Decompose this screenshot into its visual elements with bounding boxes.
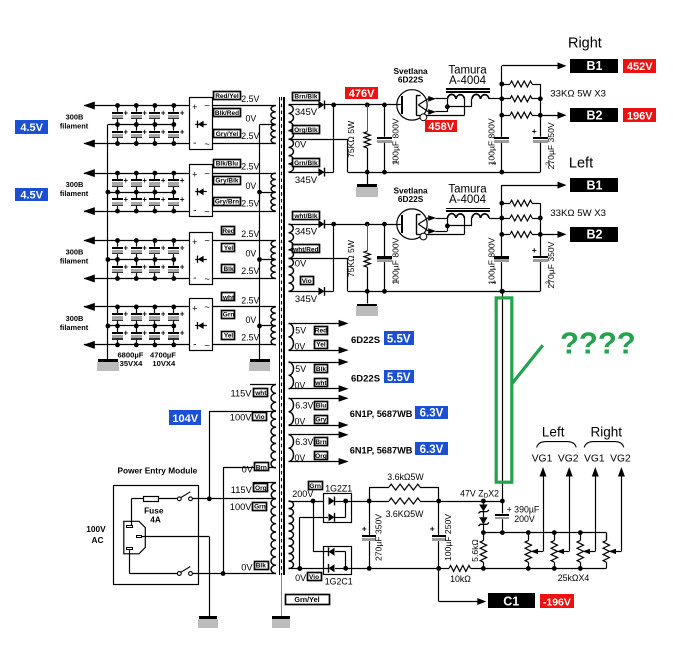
svg-text:Grn: Grn bbox=[223, 312, 235, 319]
transformer heater winding 2 bbox=[289, 362, 294, 389]
svg-text:Blk: Blk bbox=[256, 562, 267, 569]
ground filament capacitor bus bbox=[98, 359, 118, 362]
svg-text:~: ~ bbox=[204, 274, 210, 285]
wire heater 3 top bbox=[289, 398, 342, 400]
capacitor filament 2 bottom C4 bbox=[173, 192, 175, 198]
svg-text:+: + bbox=[180, 243, 185, 252]
wire wiper VG1 right bbox=[590, 551, 596, 553]
capacitor 100uF 800V left input bbox=[382, 222, 387, 227]
diode HV right bottom bbox=[318, 168, 324, 176]
label Blk/Red 0V bbox=[214, 109, 241, 117]
arrow filament 2 negative output bbox=[83, 207, 95, 215]
wire heater 4 bottom bbox=[289, 461, 342, 463]
svg-text:1: 1 bbox=[392, 279, 399, 283]
wire heater 1 bottom bbox=[289, 350, 342, 352]
capacitor filament 4 bottom C2 bbox=[136, 326, 138, 332]
capacitor filament 3 top C2 (6800uF) bbox=[136, 241, 138, 247]
wire B1 output right bbox=[502, 65, 559, 67]
svg-text:100µF 250V: 100µF 250V bbox=[443, 514, 453, 561]
capacitor filament 1 bottom C4 bbox=[173, 125, 175, 131]
wire wiper VG2 right bbox=[616, 551, 622, 553]
svg-text:-: - bbox=[193, 206, 196, 217]
svg-text:4.5V: 4.5V bbox=[20, 122, 43, 134]
wire B+ rail right bbox=[501, 66, 503, 137]
wire IEC earth pin to ground bbox=[141, 536, 209, 538]
svg-text:5.5V: 5.5V bbox=[387, 372, 411, 384]
svg-text:Yel: Yel bbox=[316, 342, 326, 349]
transformer heater winding 4 bbox=[289, 435, 294, 462]
svg-text:25kΩX4: 25kΩX4 bbox=[558, 573, 590, 583]
wire IEC line pin to fuse bbox=[131, 499, 133, 526]
svg-text:Gry/Blk: Gry/Blk bbox=[215, 178, 239, 185]
wire filament 3 AC bottom (bridge to winding) bbox=[212, 278, 275, 280]
brace Right outputs bbox=[584, 442, 624, 448]
resistor 33K C right bbox=[502, 115, 510, 117]
bridge rectifier filament 3 bbox=[190, 233, 213, 285]
wire filament 1 center tap 0V bbox=[260, 124, 276, 126]
resistor 3.6k B bbox=[389, 498, 420, 504]
potentiometer 25k VG2 right bbox=[606, 533, 608, 541]
svg-text:Gry: Gry bbox=[315, 417, 327, 424]
wire mystery link (left filter ground to bias node) bbox=[502, 291, 504, 501]
transformer heater winding 1 bbox=[289, 323, 294, 350]
svg-text:0V: 0V bbox=[295, 380, 306, 390]
capacitor filament 1 bottom C1 bbox=[117, 125, 119, 131]
svg-text:+ 390µF: + 390µF bbox=[507, 505, 540, 515]
svg-text:filament: filament bbox=[60, 323, 89, 332]
arrow filament 4 positive output bbox=[83, 303, 95, 311]
svg-text:+: + bbox=[180, 329, 185, 338]
arrow filament 1 negative output bbox=[83, 140, 95, 148]
svg-text:33KΩ 5W X3: 33KΩ 5W X3 bbox=[550, 208, 606, 219]
label heater 4 Brn bbox=[315, 438, 328, 446]
resistor 33K B right bbox=[502, 98, 510, 100]
svg-text:+: + bbox=[180, 127, 185, 136]
label 4.5V filament 2 bbox=[15, 188, 48, 201]
wire filament 4 AC top (bridge to winding) bbox=[212, 306, 275, 308]
label winding Brn/Blk bbox=[293, 93, 320, 101]
diode HV left top bbox=[318, 220, 324, 228]
wire 0V link primary1 to primary2 bbox=[223, 468, 225, 574]
arrow filament 1 positive output bbox=[83, 102, 95, 110]
svg-text:0V: 0V bbox=[295, 259, 307, 270]
arrow output VG1 left bbox=[540, 467, 547, 477]
resistor 75K 5W left bbox=[365, 222, 370, 227]
svg-text:Left: Left bbox=[569, 155, 593, 171]
svg-text:Blk/Blu: Blk/Blu bbox=[216, 161, 238, 168]
svg-text:2.5V: 2.5V bbox=[241, 332, 259, 342]
capacitor filament 1 top C2 (6800uF) bbox=[136, 106, 138, 112]
svg-text:Blu: Blu bbox=[316, 403, 327, 410]
svg-text:6800µF: 6800µF bbox=[117, 350, 143, 359]
resistor 33K A right bbox=[502, 84, 510, 86]
svg-text:452V: 452V bbox=[627, 61, 653, 73]
ground power entry earth bbox=[199, 616, 217, 619]
svg-text:+: + bbox=[124, 243, 129, 252]
bridge rectifier filament 2 bbox=[190, 165, 213, 217]
label B1 left bbox=[570, 178, 618, 192]
wire HV left ground rail bbox=[348, 291, 540, 293]
transformer primary winding 1 bbox=[271, 385, 276, 412]
rectifier 1G2Z1 bbox=[324, 494, 352, 523]
bridge rectifier filament 1 bbox=[190, 98, 213, 150]
capacitor 270uF 350V left bbox=[533, 256, 548, 258]
svg-text:0V: 0V bbox=[242, 464, 254, 474]
svg-text:3.6KΩ5W: 3.6KΩ5W bbox=[386, 509, 425, 519]
svg-text:+: + bbox=[192, 102, 197, 112]
label Yel 0V bbox=[222, 244, 235, 252]
ground HV left bbox=[367, 291, 369, 303]
svg-text:4700µF: 4700µF bbox=[150, 350, 176, 359]
wire B+ rail left bbox=[501, 185, 503, 256]
svg-text:Red: Red bbox=[222, 228, 234, 235]
svg-text:A-4004: A-4004 bbox=[449, 194, 487, 206]
label B2 left bbox=[570, 227, 618, 242]
svg-text:345V: 345V bbox=[295, 226, 318, 237]
svg-text:75KΩ 5W: 75KΩ 5W bbox=[346, 239, 356, 277]
capacitor filament 2 top C2 (6800uF) bbox=[136, 173, 138, 179]
svg-text:458V: 458V bbox=[428, 121, 454, 133]
wire filament 1 capacitor midpoint bus bbox=[108, 124, 174, 126]
transformer secondary winding filament 4 bbox=[271, 307, 276, 345]
svg-text:+: + bbox=[124, 329, 129, 338]
svg-text:6D22S: 6D22S bbox=[351, 335, 380, 346]
svg-text:-: - bbox=[193, 273, 196, 284]
svg-text:2: 2 bbox=[545, 281, 552, 285]
svg-text:6D22S: 6D22S bbox=[351, 373, 380, 384]
label C1 bbox=[488, 593, 535, 608]
transformer HV secondary winding right channel bbox=[289, 105, 294, 139]
svg-text:1: 1 bbox=[491, 281, 498, 285]
label 196V bbox=[623, 108, 656, 122]
wire tube left heater to choke bbox=[436, 218, 448, 220]
svg-text:6.3V: 6.3V bbox=[295, 401, 313, 411]
switch neutral bbox=[177, 572, 181, 576]
transformer primary winding 2 bbox=[271, 483, 276, 499]
svg-text:300B: 300B bbox=[66, 248, 84, 257]
label Org bbox=[254, 484, 268, 492]
wire filament 4 negative bus bbox=[84, 344, 189, 346]
svg-text:B1: B1 bbox=[587, 59, 603, 73]
annotation green pointer line bbox=[512, 345, 543, 384]
capacitor filament 2 top C4 (4700uF) bbox=[173, 173, 175, 179]
svg-text:+: + bbox=[142, 108, 147, 117]
potentiometer 25k VG2 left bbox=[554, 533, 556, 541]
svg-text:AC: AC bbox=[92, 535, 104, 545]
wire 100V link primary1 to line bbox=[209, 411, 211, 499]
svg-text:~: ~ bbox=[204, 236, 210, 247]
label heater 2 wht bbox=[315, 379, 328, 387]
svg-text:+: + bbox=[180, 310, 185, 319]
capacitor filament 4 bottom C3 bbox=[154, 326, 156, 332]
wire grid bias divider top rail bbox=[483, 532, 606, 534]
wire filament 1 negative bus bbox=[84, 143, 189, 145]
svg-text:+: + bbox=[192, 237, 197, 247]
label wht 2.5V bbox=[222, 293, 235, 301]
svg-text:+: + bbox=[161, 127, 166, 136]
svg-text:VG2: VG2 bbox=[558, 454, 579, 465]
wire HV left rectifier join bbox=[333, 224, 335, 291]
svg-text:filament: filament bbox=[60, 189, 89, 198]
damper diode tube 6D22S left (U2) bbox=[397, 209, 427, 239]
capacitor 270uF 350V bias bbox=[362, 535, 376, 537]
label Vio bbox=[253, 413, 267, 421]
fuse 4A bbox=[131, 498, 144, 500]
svg-text:0V: 0V bbox=[246, 315, 257, 325]
svg-text:Gry/Yel: Gry/Yel bbox=[216, 131, 239, 138]
svg-text:+: + bbox=[180, 108, 185, 117]
transformer secondary winding filament 3 bbox=[271, 241, 276, 279]
label Gry/Yel 2.5V bbox=[214, 130, 241, 138]
svg-text:wht: wht bbox=[254, 390, 267, 397]
wire filament 1 AC top (bridge to winding) bbox=[212, 105, 275, 107]
label B1 right bbox=[570, 59, 618, 73]
svg-text:Power Entry Module: Power Entry Module bbox=[118, 466, 198, 476]
transformer HV secondary winding left channel bbox=[289, 224, 294, 258]
svg-text:Yel: Yel bbox=[224, 333, 234, 340]
svg-text:2.5V: 2.5V bbox=[241, 199, 259, 209]
svg-text:100V: 100V bbox=[230, 502, 253, 512]
wire line switch to primaries bbox=[192, 498, 276, 500]
wire bias 200V tap bbox=[289, 501, 324, 503]
arrow output VG1 right bbox=[592, 467, 599, 477]
svg-text:5.5V: 5.5V bbox=[387, 333, 411, 345]
wire B2 output left bbox=[540, 234, 558, 236]
svg-text:B2: B2 bbox=[587, 109, 603, 123]
svg-text:6.3V: 6.3V bbox=[295, 437, 313, 447]
svg-text:Grn/Yel: Grn/Yel bbox=[294, 595, 319, 604]
svg-text:+: + bbox=[124, 108, 129, 117]
svg-text:2.5V: 2.5V bbox=[241, 295, 259, 305]
svg-text:345V: 345V bbox=[295, 294, 318, 305]
svg-text:6D22S: 6D22S bbox=[398, 75, 424, 85]
svg-text:+: + bbox=[180, 195, 185, 204]
label Red 2.5V bbox=[222, 227, 235, 235]
svg-text:Left: Left bbox=[542, 425, 565, 440]
svg-text:+: + bbox=[192, 304, 197, 314]
svg-text:75KΩ 5W: 75KΩ 5W bbox=[346, 120, 356, 158]
ground filament center-tap bus bbox=[250, 359, 270, 362]
svg-text:Brn/Blk: Brn/Blk bbox=[294, 94, 318, 101]
svg-text:100µF 800V: 100µF 800V bbox=[487, 237, 497, 284]
svg-text:5V: 5V bbox=[295, 326, 306, 336]
capacitor filament 3 bottom C4 bbox=[173, 260, 175, 266]
svg-text:Org: Org bbox=[315, 453, 327, 460]
svg-text:filament: filament bbox=[60, 122, 89, 131]
transformer secondary winding filament 1 bbox=[271, 106, 276, 144]
wire IEC neutral pin to switch bbox=[129, 550, 131, 573]
svg-text:Org: Org bbox=[255, 485, 267, 492]
wire HV right top 345V tap bbox=[289, 104, 319, 106]
wire filament 4 center tap 0V bbox=[260, 325, 276, 327]
svg-text:B2: B2 bbox=[587, 228, 603, 242]
svg-text:6.3V: 6.3V bbox=[420, 444, 444, 456]
resistor 33K B left bbox=[502, 218, 510, 220]
wire filament 4 AC bottom (bridge to winding) bbox=[212, 344, 275, 346]
svg-text:+: + bbox=[192, 170, 197, 180]
svg-text:+: + bbox=[161, 243, 166, 252]
svg-text:+: + bbox=[142, 127, 147, 136]
label winding Grn/Blk bbox=[293, 159, 320, 167]
label Blk 2.5V bbox=[222, 265, 235, 273]
svg-text:345V: 345V bbox=[295, 107, 318, 118]
diode HV left bottom bbox=[318, 287, 324, 295]
svg-text:+: + bbox=[142, 243, 147, 252]
zener diodes 47V x2 bbox=[483, 501, 485, 505]
label Gry/Brn 2.5V bbox=[214, 198, 241, 206]
capacitor filament 4 top C1 (6800uF) bbox=[117, 307, 119, 313]
svg-text:0V: 0V bbox=[246, 114, 257, 124]
svg-text:115V: 115V bbox=[231, 485, 253, 495]
wire primary 1 0V tap bbox=[223, 467, 276, 469]
svg-text:35VX4: 35VX4 bbox=[120, 359, 144, 368]
label Grn bias bbox=[309, 482, 323, 490]
label heater 3 Blu bbox=[315, 402, 328, 410]
svg-text:0V: 0V bbox=[295, 453, 306, 463]
label heater 4 Org bbox=[315, 452, 328, 460]
wire heater 1 top bbox=[289, 323, 342, 325]
wire filament 2 AC top (bridge to winding) bbox=[212, 173, 275, 175]
svg-text:Gry/Brn: Gry/Brn bbox=[215, 199, 239, 206]
label 476V bbox=[345, 87, 378, 99]
wire filament 2 capacitor midpoint bus bbox=[108, 192, 174, 194]
transformer heater winding 3 bbox=[289, 398, 294, 425]
wire primary 2 115V stub bbox=[253, 482, 277, 484]
wire wiper VG2 left bbox=[564, 551, 569, 553]
capacitor filament 1 bottom C3 bbox=[154, 125, 156, 131]
svg-text:1G2Z1: 1G2Z1 bbox=[325, 484, 352, 494]
capacitor filament 2 bottom C2 bbox=[136, 192, 138, 198]
wire filament 2 AC bottom (bridge to winding) bbox=[212, 211, 275, 213]
svg-text:~: ~ bbox=[204, 302, 210, 313]
arrow filament 3 positive output bbox=[83, 237, 95, 245]
wire HV left bottom 345V tap bbox=[289, 291, 319, 293]
switch line bbox=[177, 497, 181, 501]
wire capacitor midpoint ground bus bbox=[107, 125, 109, 360]
wire filament 1 AC bottom (bridge to winding) bbox=[212, 143, 275, 145]
svg-text:VG1: VG1 bbox=[584, 454, 605, 465]
svg-text:+: + bbox=[430, 523, 435, 533]
wire primary 1 100V tap bbox=[209, 411, 276, 413]
svg-text:+: + bbox=[161, 195, 166, 204]
svg-text:Grn: Grn bbox=[309, 483, 321, 490]
choke Tamura A-4004 right bbox=[446, 88, 490, 90]
label Grn 0V bbox=[222, 311, 235, 319]
svg-text:+: + bbox=[180, 176, 185, 185]
wire filament 3 negative bus bbox=[84, 278, 189, 280]
svg-text:0V: 0V bbox=[241, 563, 253, 573]
svg-text:+: + bbox=[180, 262, 185, 271]
svg-text:200V: 200V bbox=[514, 514, 535, 524]
arrow filament 2 positive output bbox=[83, 169, 95, 177]
svg-text:-: - bbox=[193, 340, 196, 351]
svg-text:VG2: VG2 bbox=[610, 454, 631, 465]
potentiometer 25k VG1 right bbox=[580, 533, 582, 541]
wire HV left 0V center tap bbox=[289, 258, 348, 260]
wire filament center-tap 0V bus bbox=[259, 125, 261, 360]
wire B2 output right bbox=[540, 115, 558, 117]
wire heater 4 top bbox=[289, 434, 342, 436]
svg-text:~: ~ bbox=[204, 101, 210, 112]
svg-text:6.3V: 6.3V bbox=[420, 407, 444, 419]
svg-text:wht/Red: wht/Red bbox=[292, 246, 318, 253]
svg-text:4A: 4A bbox=[150, 515, 161, 525]
label Red/Yel 2.5V bbox=[214, 92, 241, 100]
wire transformer core to chassis ground bbox=[281, 575, 283, 616]
svg-text:300B: 300B bbox=[66, 113, 84, 122]
transformer secondary winding filament 2 bbox=[271, 173, 276, 211]
capacitor filament 4 top C3 (4700uF) bbox=[154, 307, 156, 313]
svg-text:476V: 476V bbox=[349, 88, 375, 100]
IEC inlet bbox=[124, 521, 146, 554]
svg-text:+: + bbox=[142, 195, 147, 204]
svg-text:0V: 0V bbox=[295, 573, 306, 583]
wire filament 2 negative bus bbox=[84, 211, 189, 213]
svg-text:wht: wht bbox=[222, 294, 235, 301]
svg-text:100µF 800V: 100µF 800V bbox=[390, 237, 400, 284]
label winding Org/Blk bbox=[293, 126, 320, 134]
svg-text:????: ???? bbox=[560, 326, 636, 361]
svg-text:5.6kΩ: 5.6kΩ bbox=[470, 539, 480, 562]
bridge rectifier filament 4 bbox=[190, 299, 213, 351]
label heater 1 Red bbox=[315, 327, 328, 335]
arrow output VG2 left bbox=[566, 467, 573, 477]
svg-text:345V: 345V bbox=[295, 175, 318, 186]
wire HV right ground rail bbox=[348, 172, 540, 174]
label Blk/Blu 2.5V bbox=[214, 160, 241, 168]
svg-text:~: ~ bbox=[204, 207, 210, 218]
label winding wht/Blk bbox=[293, 212, 320, 220]
label Brn bbox=[255, 463, 269, 471]
svg-text:1: 1 bbox=[392, 160, 399, 164]
capacitor filament 3 top C4 (4700uF) bbox=[173, 241, 175, 247]
svg-text:Org/Blk: Org/Blk bbox=[294, 127, 318, 134]
svg-text:Vio: Vio bbox=[309, 574, 319, 581]
wire filament 3 AC top (bridge to winding) bbox=[212, 240, 275, 242]
svg-text:B1: B1 bbox=[587, 178, 603, 192]
capacitor filament 3 top C1 (6800uF) bbox=[117, 241, 119, 247]
svg-text:~: ~ bbox=[204, 139, 210, 150]
capacitor filament 1 bottom C2 bbox=[136, 125, 138, 131]
label 452V bbox=[623, 59, 656, 73]
wire bias 0V tap bbox=[289, 568, 329, 570]
capacitor 100uF 800V right output bbox=[494, 137, 509, 139]
svg-text:A-4004: A-4004 bbox=[449, 75, 487, 87]
svg-text:270µF 350V: 270µF 350V bbox=[374, 514, 384, 561]
capacitor filament 1 top C4 (4700uF) bbox=[173, 106, 175, 112]
wire primary 1 115V stub bbox=[250, 384, 276, 386]
potentiometer 25k VG1 left bbox=[528, 533, 530, 541]
svg-text:Right: Right bbox=[568, 35, 602, 51]
ground transformer core bbox=[272, 616, 290, 619]
capacitor filament 4 top C4 (4700uF) bbox=[173, 307, 175, 313]
transformer bias winding bbox=[289, 501, 294, 569]
label -196V bbox=[540, 594, 574, 608]
capacitor filament 1 top C3 (4700uF) bbox=[154, 106, 156, 112]
arrow filament 3 negative output bbox=[83, 275, 95, 283]
wire HV left top 345V tap bbox=[289, 224, 319, 226]
resistor 75K 5W right bbox=[365, 103, 370, 108]
svg-text:+: + bbox=[124, 176, 129, 185]
svg-text:10kΩ: 10kΩ bbox=[450, 574, 471, 584]
svg-text:0V: 0V bbox=[295, 342, 306, 352]
svg-text:196V: 196V bbox=[627, 110, 653, 122]
svg-text:+: + bbox=[142, 262, 147, 271]
label Vio bias bbox=[308, 573, 322, 581]
svg-text:2.5V: 2.5V bbox=[241, 229, 259, 239]
label Grn/Yel core ground bbox=[286, 595, 330, 605]
svg-text:100µF 800V: 100µF 800V bbox=[487, 118, 497, 165]
